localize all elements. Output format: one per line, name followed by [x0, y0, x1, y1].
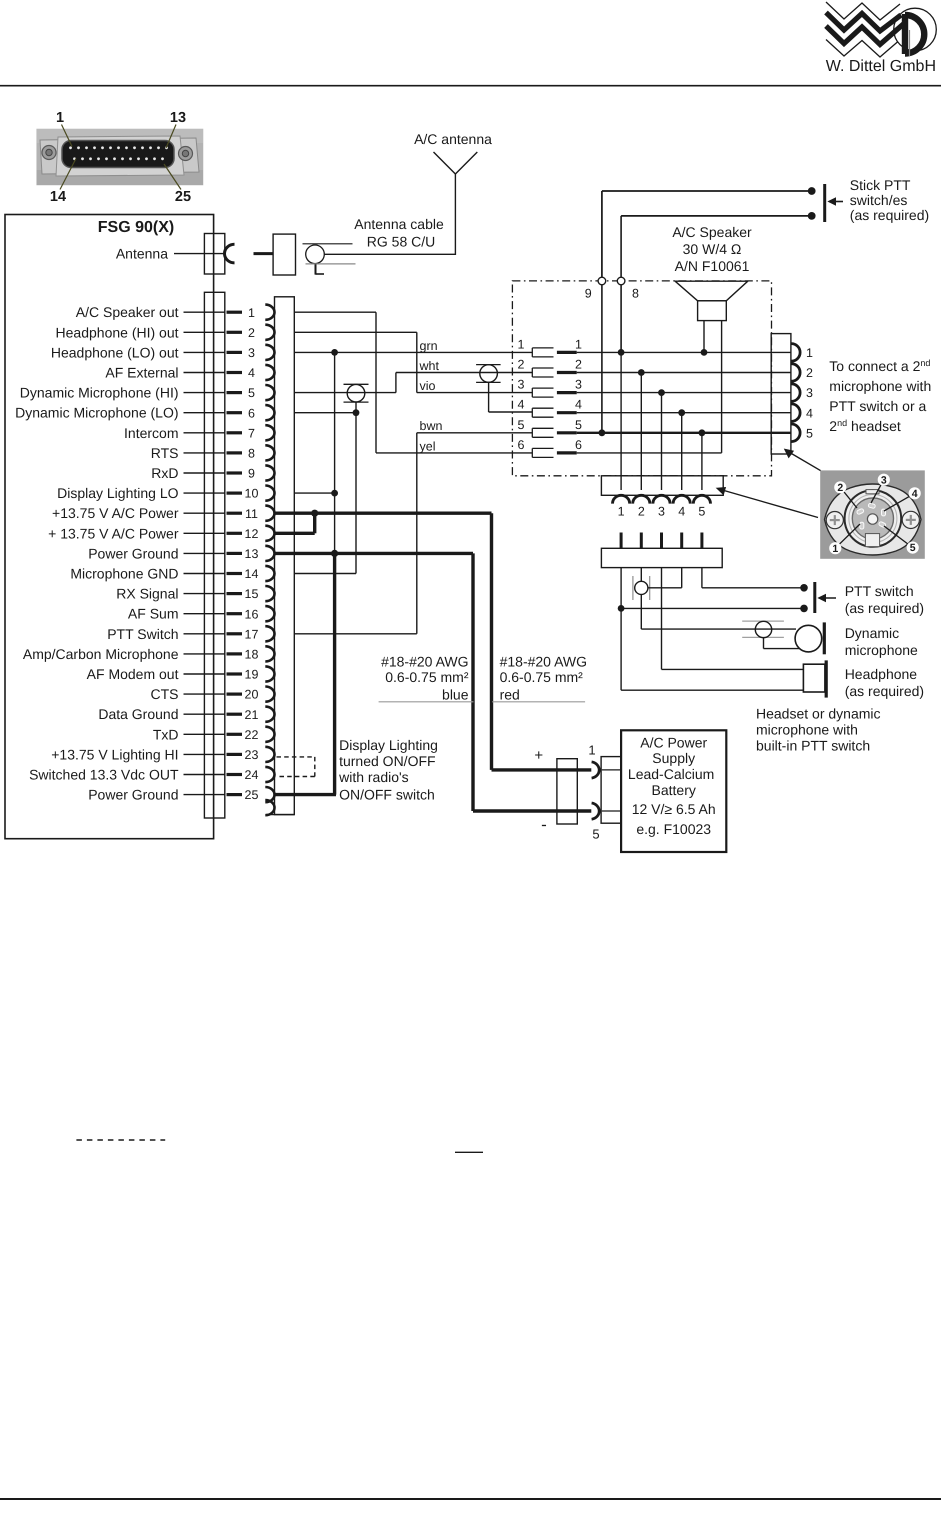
headset pin 4 wire to mic shield: [681, 568, 683, 588]
svg-text:microphone: microphone: [845, 642, 918, 658]
svg-text:A/C antenna: A/C antenna: [414, 131, 492, 147]
svg-text:microphone with: microphone with: [829, 378, 931, 394]
pin 21 (Data Ground): [98, 706, 274, 722]
svg-text:20: 20: [245, 688, 259, 702]
pin 16 (AF Sum): [128, 606, 275, 622]
junction vertical to headset plug pin 3: [661, 393, 663, 490]
round connector photo: [820, 470, 925, 558]
pin 25 (Power Ground): [88, 787, 274, 803]
pin 7 (Intercom): [124, 425, 274, 441]
svg-text:microphone with: microphone with: [756, 722, 858, 738]
pin 24 (Switched 13.3 Vdc OUT): [29, 767, 274, 783]
svg-text:Power Ground: Power Ground: [88, 787, 178, 803]
bottom rule: [0, 1498, 941, 1500]
headset plug contact 2: [633, 495, 650, 503]
junction vertical to headset plug pin 5: [701, 433, 703, 490]
svg-text:17: 17: [245, 627, 259, 641]
shield symbol on mic wire: [347, 384, 365, 402]
arrow to 2nd headset connector: [788, 452, 821, 471]
svg-text:RxD: RxD: [151, 465, 178, 481]
svg-text:AF Sum: AF Sum: [128, 606, 179, 622]
svg-text:2: 2: [806, 366, 813, 380]
svg-text:Headphone (HI) out: Headphone (HI) out: [56, 324, 179, 340]
power ground wire (blue) pin 13: [274, 552, 474, 555]
svg-text:13: 13: [245, 547, 259, 561]
2nd headset connector contact 3: [791, 384, 800, 402]
headset plug contact 4: [673, 495, 690, 503]
dashed mark: [76, 1139, 165, 1141]
pin 5 wire through shield: [294, 392, 396, 394]
svg-text:with radio's: with radio's: [338, 769, 409, 785]
svg-text:25: 25: [245, 788, 259, 802]
svg-text:6: 6: [248, 406, 255, 420]
pin 2 wire to vio: [294, 331, 417, 333]
battery connector plug: [557, 759, 577, 824]
svg-text:turned ON/OFF: turned ON/OFF: [339, 753, 435, 769]
round connector pin 1 badge: [835, 524, 860, 548]
connector bottom partial contact arc: [265, 800, 274, 815]
junction vertical to headset plug pin 2: [640, 373, 642, 491]
dynamic microphone shield symbol: [742, 620, 784, 622]
svg-text:8: 8: [632, 287, 639, 301]
+13.75V power wire (red) pins 11+12: [274, 512, 492, 515]
svg-text:19: 19: [245, 668, 259, 682]
svg-text:AF Modem out: AF Modem out: [87, 666, 179, 682]
headset pin 1 wire (PTT low + headphone low): [620, 568, 622, 691]
pin 12 jumper to pin 11: [274, 532, 315, 535]
svg-text:3: 3: [575, 378, 582, 392]
row 6 wire to speaker: [577, 452, 722, 454]
round connector pin 3 badge: [871, 480, 884, 503]
svg-text:Display Lighting LO: Display Lighting LO: [57, 485, 179, 501]
A/C power supply battery box: [621, 730, 726, 852]
svg-text:6: 6: [518, 438, 525, 452]
svg-text:6: 6: [575, 438, 582, 452]
pin 22 (TxD): [153, 726, 275, 742]
svg-text:4: 4: [678, 505, 685, 519]
stick PTT wires: [602, 190, 812, 192]
svg-text:24: 24: [245, 768, 259, 782]
2nd-connector socket row 1: [518, 337, 583, 357]
row 4 wire: [577, 412, 791, 414]
round connector pin 5 badge: [884, 526, 913, 548]
pin 2 (Headphone (HI) out): [56, 324, 275, 340]
radio DB25 connector body: [204, 292, 224, 818]
svg-text:+: +: [534, 747, 543, 764]
svg-text:A/C Speaker out: A/C Speaker out: [76, 304, 179, 320]
pin 25 ground wire: [274, 793, 337, 796]
junction vertical to headset plug pin 4: [681, 413, 683, 490]
svg-text:-: -: [541, 815, 547, 834]
svg-text:1: 1: [588, 743, 595, 758]
round connector pin 2 badge: [840, 487, 857, 508]
svg-text:4: 4: [806, 406, 813, 420]
antenna cable plug: [254, 252, 273, 255]
headset pin 3 wire (headphone hi): [661, 568, 663, 670]
blue underline: [379, 701, 474, 703]
headset pin 5 wire (PTT hi): [701, 568, 703, 588]
pin 6 (Dynamic Microphone (LO)): [15, 405, 274, 421]
svg-text:12: 12: [245, 527, 259, 541]
2nd-connector socket row 6: [518, 438, 583, 458]
svg-text:(as required): (as required): [845, 683, 924, 699]
pin 1 (A/C Speaker out): [76, 304, 275, 320]
2nd headset connector contact 4: [791, 404, 800, 422]
svg-text:#18-#20 AWG: #18-#20 AWG: [500, 654, 587, 670]
svg-text:+13.75 V A/C Power: +13.75 V A/C Power: [52, 505, 179, 521]
svg-text:Headphone (LO) out: Headphone (LO) out: [51, 344, 179, 360]
svg-text:22: 22: [245, 728, 259, 742]
svg-text:Microphone GND: Microphone GND: [70, 566, 178, 582]
svg-text:1: 1: [575, 337, 582, 351]
svg-text:18: 18: [245, 648, 259, 662]
row 1 wire: [577, 351, 791, 353]
node 9 (breakout): [601, 191, 603, 277]
mic shield ticks: [632, 576, 634, 600]
svg-text:2: 2: [638, 505, 645, 519]
svg-text:Power Ground: Power Ground: [88, 545, 178, 561]
svg-text:0.6-0.75 mm²: 0.6-0.75 mm²: [385, 669, 469, 685]
svg-text:3: 3: [248, 346, 255, 360]
svg-text:2: 2: [518, 358, 525, 372]
pin 18 (Amp/Carbon Microphone): [23, 646, 275, 662]
svg-text:14: 14: [245, 567, 259, 581]
svg-text:+13.75 V Lighting HI: +13.75 V Lighting HI: [51, 746, 178, 762]
pin 8 (RTS): [151, 445, 275, 461]
2nd headset connector body: [771, 334, 791, 454]
harness DB25 connector body: [275, 297, 295, 815]
svg-text:Stick PTT: Stick PTT: [850, 177, 911, 193]
2nd-connector socket row 4: [518, 398, 583, 418]
svg-text:16: 16: [245, 607, 259, 621]
FSG 90(X) radio box: [5, 215, 214, 839]
headset plug male block: [601, 533, 722, 568]
pin 13 (Power Ground): [88, 545, 274, 561]
pin 9 (RxD): [151, 465, 274, 481]
2nd-connector socket row 5: [518, 418, 583, 438]
svg-text:built-in PTT switch: built-in PTT switch: [756, 738, 870, 754]
pin 15 (RX Signal): [116, 586, 274, 602]
svg-text:1: 1: [618, 505, 625, 519]
svg-text:Dynamic Microphone (LO): Dynamic Microphone (LO): [15, 405, 178, 421]
antenna wire: [174, 253, 225, 255]
svg-text:blue: blue: [442, 687, 469, 703]
svg-text:1: 1: [248, 306, 255, 320]
svg-text:switch/es: switch/es: [850, 192, 908, 208]
junction vertical to headset plug pin 1: [620, 352, 622, 490]
svg-text:TxD: TxD: [153, 726, 179, 742]
node 8 (breakout): [620, 216, 622, 277]
headset plug contact 3: [653, 495, 670, 503]
harness break-out box (dash-dot): [512, 281, 771, 476]
antenna connector socket on radio: [204, 234, 224, 275]
pin 11 (+13.75 V A/C Power): [52, 505, 274, 521]
svg-text:Intercom: Intercom: [124, 425, 178, 441]
2nd-connector socket row 2: [518, 358, 583, 378]
svg-text:30 W/4 Ω: 30 W/4 Ω: [683, 241, 742, 257]
row 3 wire: [577, 392, 791, 394]
svg-text:+ 13.75 V A/C Power: + 13.75 V A/C Power: [48, 525, 179, 541]
svg-text:Antenna: Antenna: [116, 245, 168, 261]
svg-text:grn: grn: [420, 339, 438, 353]
svg-text:5: 5: [575, 418, 582, 432]
svg-text:5: 5: [698, 505, 705, 519]
pin 20 (CTS): [151, 686, 275, 702]
pin 10 (Display Lighting LO): [57, 485, 274, 501]
svg-text:RX Signal: RX Signal: [116, 586, 178, 602]
svg-text:23: 23: [245, 748, 259, 762]
dynamic microphone symbol: [795, 625, 822, 652]
svg-text:2: 2: [248, 326, 255, 340]
svg-text:A/C Power: A/C Power: [640, 734, 707, 750]
svg-text:7: 7: [248, 426, 255, 440]
speaker SP1: [675, 281, 748, 301]
svg-text:1: 1: [806, 346, 813, 360]
pin 3 (Headphone (LO) out): [51, 344, 275, 360]
svg-text:9: 9: [585, 287, 592, 301]
pin 17 (PTT Switch): [107, 626, 274, 642]
svg-text:3: 3: [881, 474, 887, 486]
svg-text:2: 2: [575, 358, 582, 372]
svg-text:#18-#20 AWG: #18-#20 AWG: [381, 654, 468, 670]
wht shield drop to row 4: [488, 382, 490, 412]
svg-text:bwn: bwn: [420, 419, 443, 433]
svg-text:10: 10: [245, 487, 259, 501]
svg-text:12 V/≥ 6.5 Ah: 12 V/≥ 6.5 Ah: [632, 801, 716, 817]
svg-text:FSG 90(X): FSG 90(X): [98, 219, 174, 236]
svg-text:e.g. F10023: e.g. F10023: [636, 821, 711, 837]
header rule: [0, 85, 941, 87]
svg-text:wht: wht: [419, 359, 440, 373]
svg-text:15: 15: [245, 587, 259, 601]
svg-text:AF External: AF External: [105, 365, 178, 381]
svg-text:5: 5: [248, 386, 255, 400]
2nd headset connector contact 1: [791, 344, 800, 362]
pin 23-24 optional jumper (dashed): [277, 756, 315, 758]
svg-text:3: 3: [518, 378, 525, 392]
shield drop to pin 6 and pin 14: [355, 402, 357, 573]
svg-text:RG 58 C/U: RG 58 C/U: [367, 234, 435, 250]
svg-text:RTS: RTS: [151, 445, 179, 461]
svg-text:Data Ground: Data Ground: [98, 706, 178, 722]
headphone symbol: [803, 664, 825, 692]
svg-text:3: 3: [806, 386, 813, 400]
svg-text:yel: yel: [420, 439, 436, 453]
svg-text:red: red: [500, 687, 520, 703]
svg-text:Battery: Battery: [652, 782, 696, 798]
svg-text:5: 5: [518, 418, 525, 432]
speaker leads: [703, 321, 705, 353]
svg-text:Amp/Carbon Microphone: Amp/Carbon Microphone: [23, 646, 179, 662]
svg-text:2nd headset: 2nd headset: [829, 418, 901, 434]
svg-text:Dynamic Microphone (HI): Dynamic Microphone (HI): [20, 385, 179, 401]
arrow to headset plug: [721, 490, 819, 518]
pin 14 (Microphone GND): [70, 566, 274, 582]
pin 10 wire: [294, 492, 334, 494]
pin 3 / grn wire to 2nd-connector pin 1: [294, 351, 532, 353]
svg-text:1: 1: [56, 110, 64, 126]
svg-text:CTS: CTS: [151, 686, 179, 702]
svg-text:4: 4: [518, 398, 525, 412]
pin 23 (+13.75 V Lighting HI): [51, 746, 274, 762]
svg-text:25: 25: [175, 189, 191, 205]
svg-text:A/N F10061: A/N F10061: [675, 258, 750, 274]
svg-text:1: 1: [832, 543, 838, 555]
svg-text:5: 5: [806, 426, 813, 440]
DB25 connector photo: [37, 129, 203, 185]
svg-text:PTT Switch: PTT Switch: [107, 626, 178, 642]
svg-text:9: 9: [248, 467, 255, 481]
svg-text:Headphone: Headphone: [845, 666, 918, 682]
svg-text:ON/OFF switch: ON/OFF switch: [339, 787, 435, 803]
row 5 wire: [577, 432, 791, 434]
pin 1 wire to yel: [294, 311, 376, 313]
wht wire: [396, 372, 532, 374]
shield symbol on wht wire: [480, 365, 498, 383]
svg-text:1: 1: [518, 337, 525, 351]
A/C antenna symbol: [434, 152, 456, 174]
svg-text:14: 14: [50, 189, 66, 205]
svg-text:W. Dittel GmbH: W. Dittel GmbH: [826, 58, 936, 75]
vio wire: [417, 392, 533, 394]
svg-text:4: 4: [912, 488, 918, 500]
svg-text:4: 4: [575, 398, 582, 412]
2nd headset connector contact 5: [791, 424, 800, 442]
svg-text:Switched 13.3 Vdc OUT: Switched 13.3 Vdc OUT: [29, 767, 179, 783]
headset plug contact 5: [693, 495, 710, 503]
svg-text:Supply: Supply: [652, 750, 695, 766]
svg-text:3: 3: [658, 505, 665, 519]
svg-text:11: 11: [245, 507, 258, 521]
svg-text:4: 4: [248, 366, 255, 380]
svg-text:8: 8: [248, 447, 255, 461]
W. Dittel GmbH logo: [826, 2, 936, 57]
svg-text:5: 5: [592, 827, 599, 842]
ground vertical x=334.6 (pins 3,10,13,25): [334, 352, 336, 553]
bwn wire: [417, 432, 533, 434]
2nd-connector socket row 3: [518, 378, 583, 398]
svg-text:2: 2: [837, 482, 843, 494]
svg-text:Antenna cable: Antenna cable: [354, 216, 444, 232]
svg-text:PTT switch: PTT switch: [845, 583, 914, 599]
short rule mark: [455, 1151, 483, 1153]
headset pin 2 wire (mic hi) w/ shield: [640, 568, 642, 582]
svg-text:Lead-Calcium: Lead-Calcium: [628, 766, 714, 782]
headset plug contact 1: [613, 495, 630, 503]
pin 5 (Dynamic Microphone (HI)): [20, 385, 275, 401]
svg-text:Headset or dynamic: Headset or dynamic: [756, 706, 881, 722]
stick PTT switch symbol: [823, 184, 826, 222]
yel wire: [376, 452, 532, 454]
round connector pin 4 badge: [884, 493, 915, 511]
svg-text:5: 5: [910, 542, 916, 554]
svg-text:Display Lighting: Display Lighting: [339, 737, 438, 753]
svg-text:To connect a 2nd: To connect a 2nd: [829, 358, 930, 374]
svg-text:PTT switch or a: PTT switch or a: [829, 398, 926, 414]
svg-text:(as required): (as required): [850, 207, 929, 223]
svg-text:21: 21: [245, 708, 259, 722]
antenna coax wire: [324, 253, 455, 255]
svg-text:Dynamic: Dynamic: [845, 625, 899, 641]
2nd headset connector contact 2: [791, 364, 800, 382]
row 2 wire: [577, 372, 791, 374]
pin 4 (AF External): [105, 365, 274, 381]
svg-text:13: 13: [170, 110, 186, 126]
battery contact -: [592, 803, 600, 819]
PTT switch symbol 2: [813, 582, 816, 613]
red underline: [492, 701, 585, 703]
battery contact +: [592, 762, 600, 778]
svg-text:0.6-0.75 mm²: 0.6-0.75 mm²: [500, 669, 584, 685]
svg-text:vio: vio: [420, 379, 436, 393]
headset plug female block: [601, 476, 723, 496]
svg-text:A/C Speaker: A/C Speaker: [672, 224, 752, 240]
pin 19 (AF Modem out): [87, 666, 275, 682]
pin 17 PTT wire to bwn: [294, 633, 417, 635]
svg-text:(as required): (as required): [845, 600, 924, 616]
pin 12 (+ 13.75 V A/C Power): [48, 525, 274, 541]
